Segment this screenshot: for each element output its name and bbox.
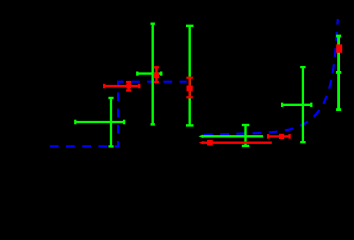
green point G4 cross with left arrow [203,125,264,146]
red upper-limit arrow R_arrow [203,141,272,143]
red point R5 [336,44,342,52]
red point R3 [186,78,192,98]
red point R1 [104,82,139,91]
blue dashed model: step segment [50,82,187,147]
red point R2 [154,67,159,82]
green point G6 tall bar + short cross [336,36,341,110]
green point G5 cross [282,67,311,142]
green point G3 tall bar [186,26,194,126]
green arrow head G4 [199,135,204,139]
green point G1 cross [75,98,124,146]
red point R4 [268,134,290,139]
blue dashed model: rising curve [204,19,338,135]
green point G2 tall bar + horizontal bar [137,24,161,125]
